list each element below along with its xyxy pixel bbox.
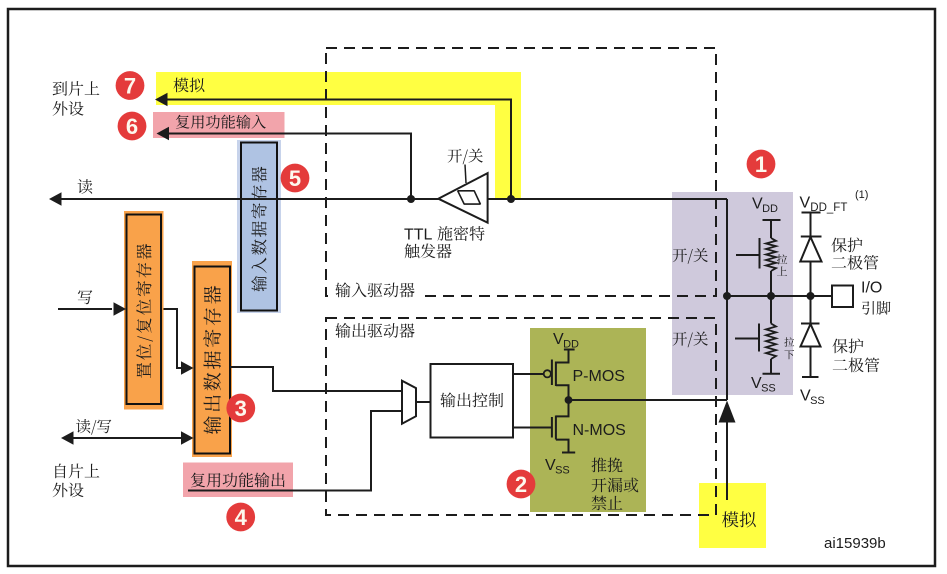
node IO-read junction [723,292,731,300]
arrowhead read (left) [49,192,62,206]
badge 5 [281,164,310,193]
svg-text:N-MOS: N-MOS [573,422,626,439]
label read [78,179,93,194]
badge 3 [226,394,255,423]
protection diode lower [801,324,821,347]
label pull-up (shang) [777,266,787,275]
output control box [431,364,514,438]
wire read line [54,198,727,200]
pull-up bottom stub [770,271,772,296]
label read/write [76,419,111,435]
wire alternate function output to mux [188,411,402,491]
svg-text:3: 3 [235,396,247,421]
I/O pin square [832,286,853,308]
wire IO line [727,295,831,297]
input driver dashed box [326,48,716,296]
label IO pin (chinese) [862,301,890,315]
label input driver backing [333,282,421,298]
node read-AFI junction [407,195,415,203]
diode upper anode stub [810,262,812,297]
register box set/reset (outer) [124,211,164,410]
label from-on-chip-peripheral line1 [55,464,99,479]
p-mos gate bar [551,360,553,386]
label output control [440,392,503,407]
label push-pull line1 [592,458,623,473]
svg-text:5: 5 [289,166,301,191]
pink bar alternate function output [183,463,293,498]
diode upper cathode bar [801,236,822,238]
node analog junction [507,195,515,203]
label pull-down (xia) [784,350,794,359]
svg-text:SS: SS [761,383,776,395]
n-mos source lead [556,440,569,452]
diode top stub [810,213,812,237]
badge 4 [226,503,255,532]
register box output-data (outer) [192,261,232,457]
wire mux to output control [416,401,430,403]
p-mos gate bubble [544,370,551,377]
label alternate function output [191,472,285,487]
label on/off schmitt [448,149,483,165]
label output data register (rotated) [203,286,221,434]
pull-down top stub [770,296,772,324]
arrowhead read/write left [61,431,74,445]
svg-text:2: 2 [515,472,527,497]
svg-text:(1): (1) [855,189,868,201]
svg-text:1: 1 [755,152,767,177]
label input driver [335,282,414,297]
register box input-data (inner) [241,143,277,311]
label set/reset register (rotated) [136,244,153,378]
label write [78,290,92,304]
node diode junction [807,292,815,300]
label pull-down (la) [784,337,794,347]
wire analog bottom line [726,420,728,500]
arrowhead analog (left) [155,93,168,107]
wire write line [58,308,112,310]
pull-up supply bar [763,219,781,221]
n-mos channel bar [555,416,557,440]
wire analog input line [166,100,511,198]
n-mos gate bar [551,417,553,438]
pull-down gate bar [758,324,760,352]
pull-up supply stub [770,221,772,238]
n-mos drain lead [556,400,569,416]
vdd-ft supply bar [802,212,821,214]
resistor pull-down [766,324,776,360]
pull-down bottom stub [770,359,772,374]
label on/off pull-down [673,332,708,348]
protection diode upper [800,237,821,262]
badge 7 [116,71,145,100]
arrowhead read/write right [181,431,194,445]
node pull junction [767,292,775,300]
p-mos drain lead [556,385,569,400]
label alternate function input [176,115,266,129]
wire set/reset to output-data [164,309,182,368]
arrowhead AFI (left) [157,127,170,141]
label push-pull line3 [592,496,623,511]
svg-text:ai15939b: ai15939b [824,535,886,552]
label protect diode upper line2 [832,255,879,270]
label TTL schmitt line2 [405,243,452,258]
schmitt trigger TTL buffer [438,173,487,223]
pull-up gate lead [736,254,760,256]
arrowhead write (right) [114,302,127,316]
register box output-data (border) [195,267,231,454]
label input data register (rotated) [251,167,266,292]
diode lower ground bar [802,376,819,378]
diode lower top stub [810,296,812,324]
arrowhead analog up [719,401,736,423]
diode lower anode stub [810,347,812,378]
schmitt on/off pointer line [465,165,466,184]
register box set/reset (border) [127,215,162,405]
svg-text:6: 6 [126,114,138,139]
label push-pull line2 [592,478,639,493]
yellow analog path highlight [156,72,521,198]
badge 2 [507,470,536,499]
label to-on-chip-peripheral line1 [53,81,100,96]
register box input-data (outer) [237,140,281,313]
badge 1 [747,150,776,179]
output driver dashed box [326,318,716,515]
svg-text:TTL: TTL [404,227,433,244]
badge 6 [118,112,147,141]
wire vertical IO riser [726,199,728,400]
svg-text:DD: DD [563,339,579,351]
svg-text:V: V [800,195,811,212]
yellow analog box (bottom) [699,483,766,548]
svg-text:DD_FT: DD_FT [810,202,847,214]
schmitt hysteresis symbol [458,191,481,204]
svg-text:SS: SS [810,395,825,407]
svg-text:SS: SS [555,465,570,477]
svg-text:DD: DD [762,203,778,215]
label pull-up (la) [777,254,787,264]
pull-up gate bar [759,238,761,269]
label from-on-chip-peripheral line2 [53,483,84,498]
label protect diode lower line2 [833,358,880,373]
transistor node [565,396,573,404]
p-mos source lead [556,350,569,363]
p-mos supply bar [564,349,575,351]
pull-down gate lead [735,338,759,340]
arrowhead into output-data [181,361,194,375]
svg-text:7: 7 [124,73,136,98]
wire n-mos gate [513,427,552,429]
label analog top [173,78,204,93]
label output driver [335,323,414,338]
wire alternate function input line [168,134,411,198]
n-mos ground bar [562,452,575,454]
pink bar alternate function input [153,112,285,138]
svg-text:P-MOS: P-MOS [573,368,625,385]
resistor pull-up [766,238,776,271]
svg-text:I/O: I/O [861,280,882,297]
wire p-mos gate [513,373,544,375]
mux selector [402,381,416,424]
label protect diode upper line1 [831,237,862,252]
label analog bottom [722,511,756,527]
svg-text:4: 4 [235,505,248,530]
wire output stage to IO [569,399,728,401]
p-mos channel bar [555,362,557,387]
pull-down ground bar [763,373,781,375]
wire output-data to mux [230,367,402,391]
diode lower cathode bar [801,323,820,325]
label on/off pull-up [673,248,708,264]
label protect diode lower line1 [832,338,863,353]
label to-on-chip-peripheral line2 [53,101,84,116]
olive shaded region (output stage) [530,328,646,512]
purple shaded region (pull-up/pull-down) [672,192,793,395]
wire read/write line [66,437,182,439]
